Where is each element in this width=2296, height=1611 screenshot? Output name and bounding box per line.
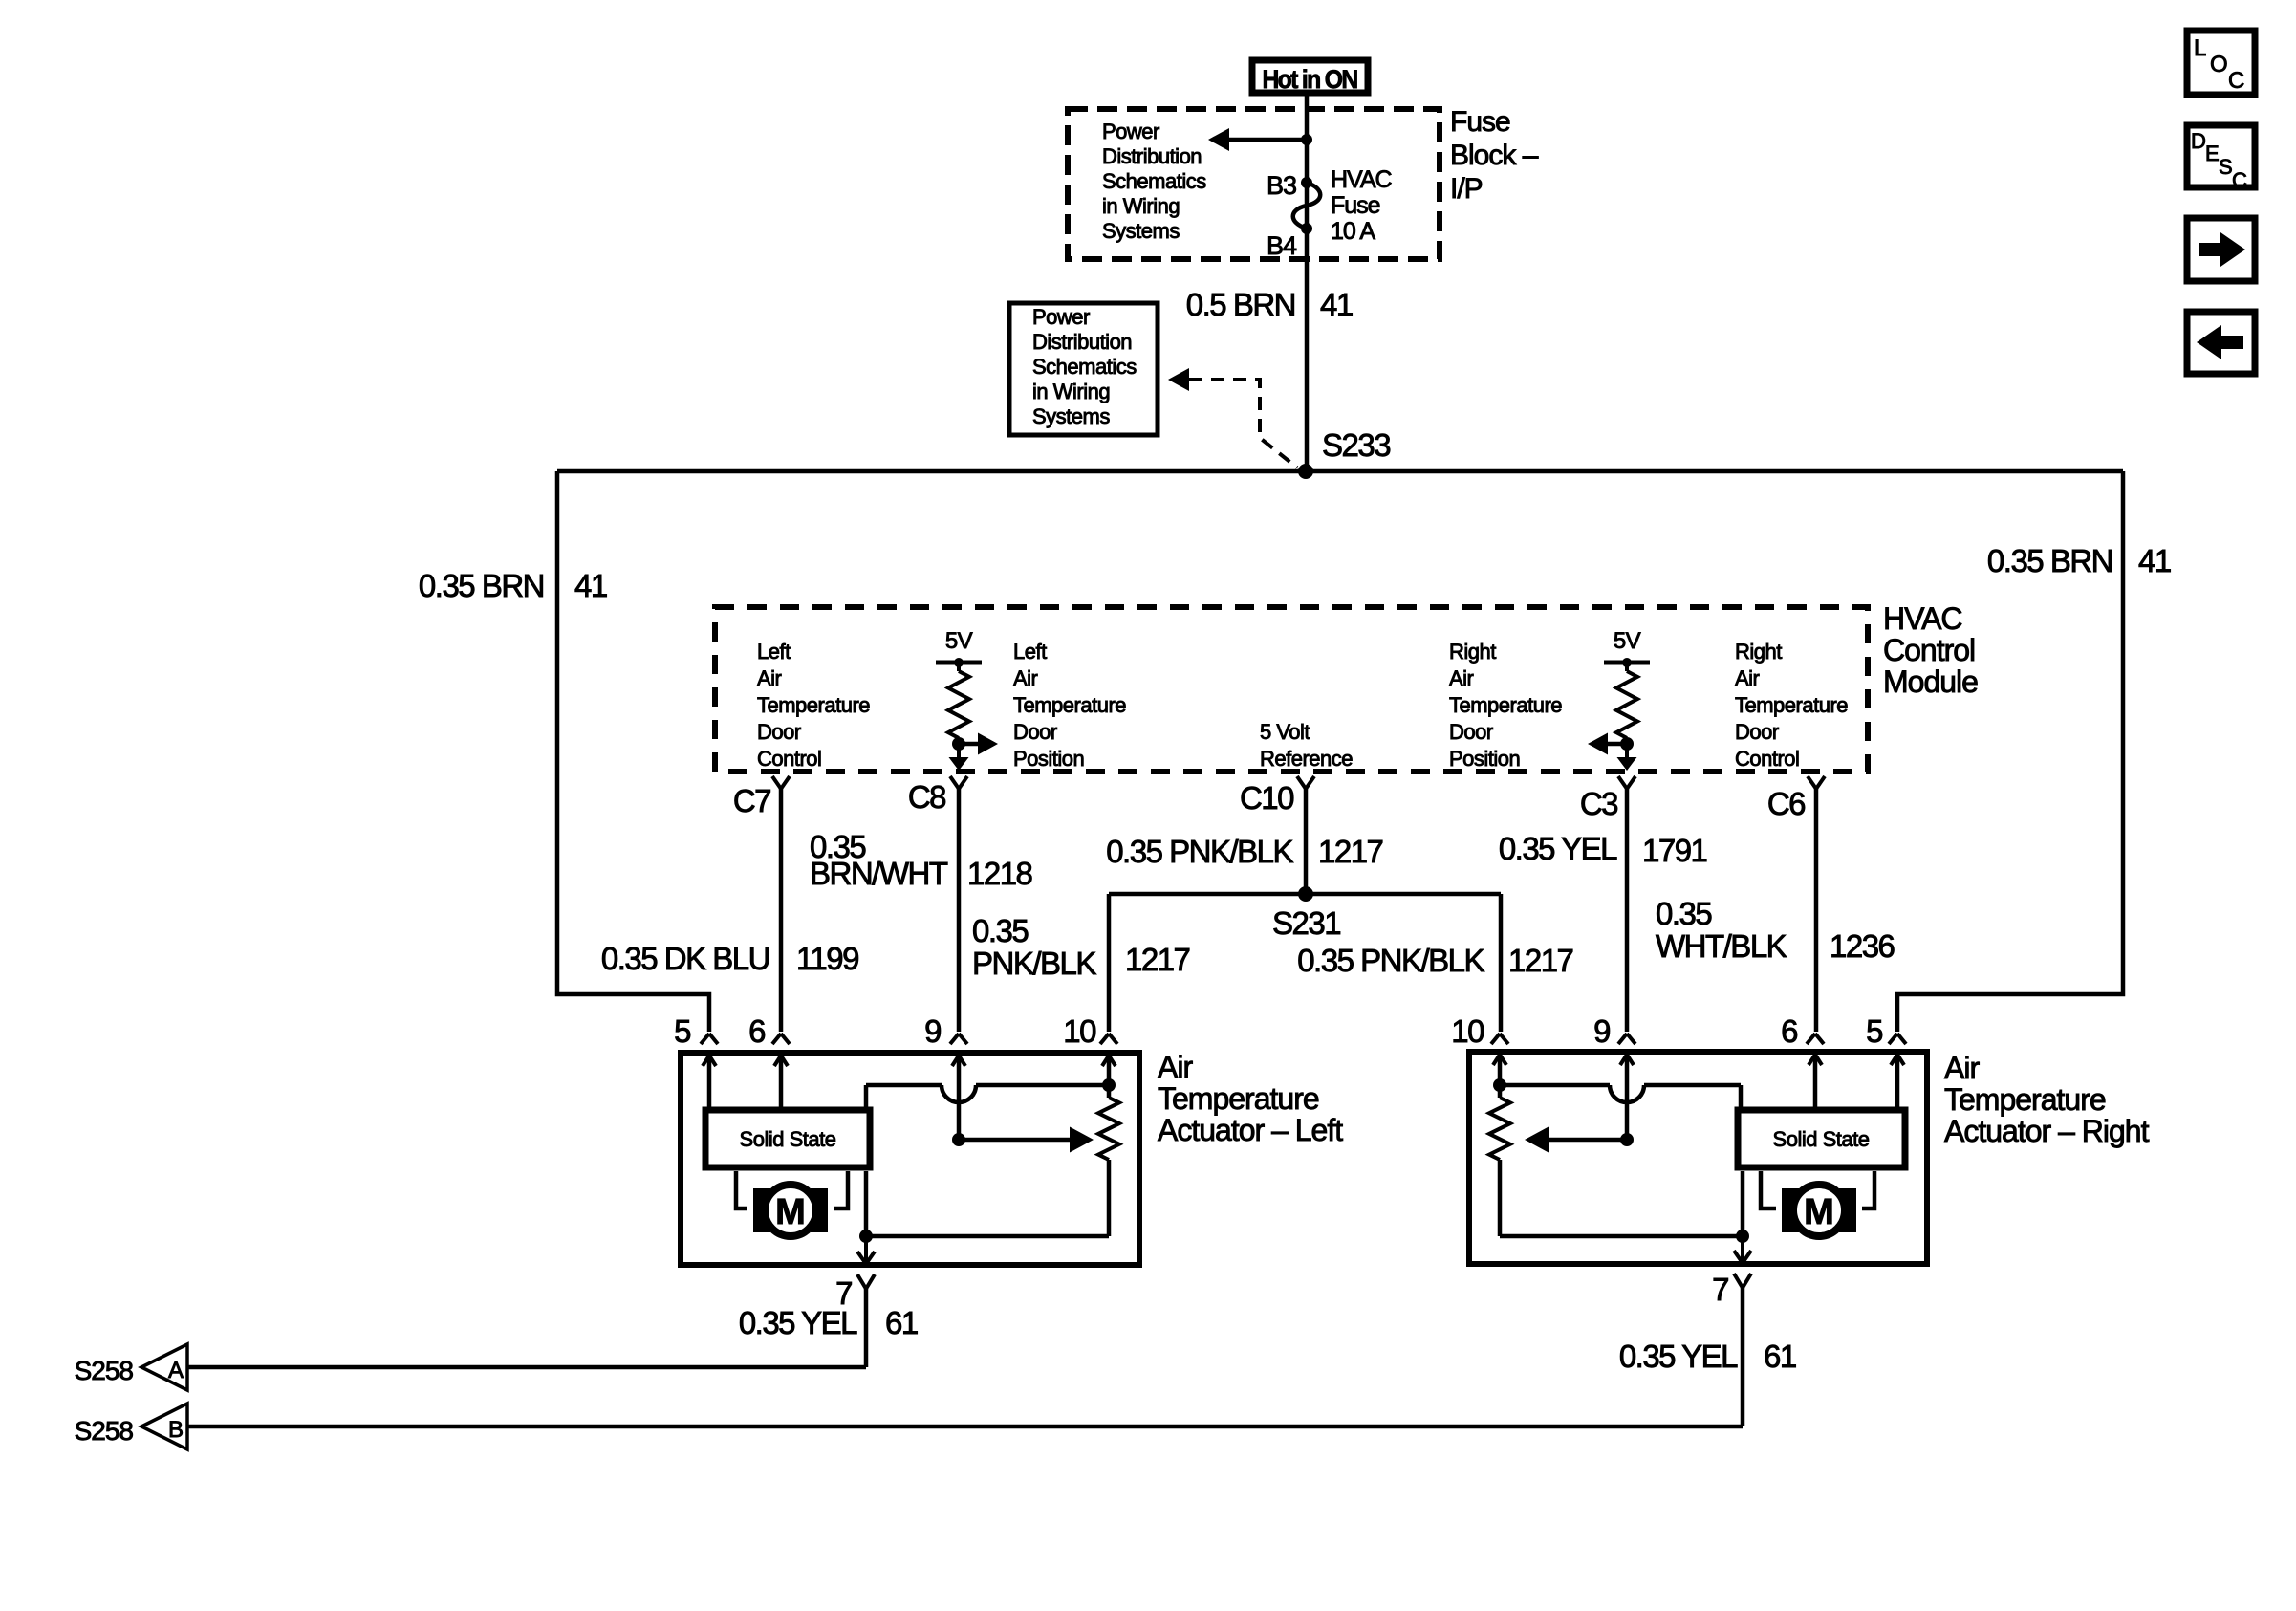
- svg-text:0.35 PNK/BLK: 0.35 PNK/BLK: [1297, 943, 1484, 978]
- wire: outer box top (S233 bus): [557, 469, 2123, 474]
- svg-text:Schematics: Schematics: [1032, 355, 1137, 379]
- svg-text:A: A: [168, 1358, 184, 1383]
- icon: DESC button: [2187, 125, 2255, 187]
- wire: pin 9 to wiper junction: [957, 1056, 962, 1140]
- arrow: left output down to C8: [957, 744, 961, 757]
- svg-text:L: L: [2194, 35, 2206, 61]
- wire: solid state to motor left brush: [736, 1171, 747, 1208]
- wire C3 to pin 9 right (0.35 YEL 1791): [1625, 788, 1630, 1032]
- node: junction at hot feed: [1301, 134, 1312, 145]
- svg-text:Hot in ON: Hot in ON: [1263, 65, 1357, 94]
- svg-text:PNK/BLK: PNK/BLK: [972, 946, 1096, 981]
- pin 10 (left actuator): [1100, 1034, 1109, 1044]
- motor M (left): [753, 1188, 770, 1232]
- svg-text:S258: S258: [75, 1416, 134, 1446]
- svg-text:I/P: I/P: [1450, 173, 1483, 205]
- svg-text:0.35 BRN: 0.35 BRN: [419, 568, 544, 603]
- svg-text:5: 5: [1866, 1013, 1882, 1049]
- svg-text:6: 6: [748, 1013, 765, 1049]
- svg-text:61: 61: [1764, 1339, 1796, 1374]
- connector C6: [1808, 776, 1816, 789]
- svg-text:Control: Control: [1735, 747, 1799, 771]
- svg-text:1236: 1236: [1830, 928, 1895, 964]
- svg-text:5: 5: [674, 1013, 690, 1049]
- svg-text:in Wiring: in Wiring: [1102, 194, 1180, 218]
- svg-text:0.35 DK BLU: 0.35 DK BLU: [601, 941, 769, 976]
- wire: S258 A to pin 7 left: [187, 1365, 866, 1370]
- wire: right 0.35 BRN 41 branch to pin 5 right: [1897, 471, 2123, 1032]
- svg-text:C7: C7: [733, 783, 770, 818]
- fuse: HVAC Fuse 10 A, terminals B3/B4: [1301, 177, 1312, 188]
- wire C10 to splice S231 (0.35 PNK/BLK 1217): [1304, 788, 1309, 889]
- icon: LOC button: [2187, 31, 2255, 95]
- svg-text:Right: Right: [1449, 640, 1496, 664]
- wire: S258 B to pin 7 right: [187, 1425, 1743, 1429]
- svg-text:1217: 1217: [1318, 834, 1383, 869]
- arrow: right wiper output left: [1607, 742, 1627, 747]
- resistor: left feedback potentiometer: [1098, 1098, 1119, 1160]
- wire: pin 10 to resistor top (right): [1498, 1055, 1503, 1098]
- power label "Hot in ON": [1252, 60, 1368, 93]
- svg-text:Door: Door: [757, 720, 801, 744]
- actuator box: Air Temperature Actuator - Right: [1469, 1052, 1927, 1264]
- pin 9 (left actuator): [950, 1034, 959, 1044]
- svg-text:61: 61: [885, 1305, 918, 1340]
- note box: Power Distribution Schematics in Wiring Systems: [1009, 303, 1158, 435]
- svg-text:5V: 5V: [945, 628, 973, 654]
- resistor: right position sense pull-up: [1625, 663, 1629, 671]
- svg-text:Air: Air: [1735, 666, 1760, 690]
- svg-text:Temperature: Temperature: [1158, 1081, 1319, 1116]
- svg-text:S258: S258: [75, 1356, 134, 1385]
- pin 9 (right actuator): [1618, 1034, 1627, 1044]
- svg-text:Temperature: Temperature: [1013, 693, 1126, 717]
- svg-text:Air: Air: [757, 666, 782, 690]
- svg-text:Control: Control: [757, 747, 821, 771]
- svg-text:Temperature: Temperature: [1735, 693, 1848, 717]
- svg-text:C: C: [2228, 68, 2244, 94]
- svg-text:1217: 1217: [1125, 942, 1190, 977]
- svg-text:10 A: 10 A: [1331, 218, 1375, 245]
- svg-text:in Wiring: in Wiring: [1032, 380, 1110, 403]
- svg-text:S231: S231: [1272, 905, 1340, 941]
- svg-text:9: 9: [924, 1013, 941, 1049]
- svg-text:41: 41: [1320, 287, 1353, 322]
- svg-text:Air: Air: [1449, 666, 1474, 690]
- svg-text:10: 10: [1451, 1013, 1484, 1049]
- connector C10: [1297, 776, 1306, 789]
- svg-text:B4: B4: [1267, 231, 1297, 260]
- svg-text:M: M: [775, 1192, 806, 1232]
- svg-text:41: 41: [574, 568, 607, 603]
- node: pin10/feedback junction: [1102, 1078, 1116, 1092]
- HVAC control module dashed box: [715, 607, 1868, 772]
- node: pin 7 junction (left): [859, 1230, 873, 1243]
- svg-text:S: S: [2219, 155, 2233, 179]
- connector C8: [950, 776, 959, 789]
- svg-text:Door: Door: [1735, 720, 1779, 744]
- svg-text:Left: Left: [757, 640, 791, 664]
- svg-text:Position: Position: [1449, 747, 1520, 771]
- wire: feedback line with hop over pin 9 wire (right): [1500, 1083, 1610, 1088]
- pin 5 (left actuator): [701, 1034, 709, 1044]
- svg-text:Distribution: Distribution: [1032, 330, 1132, 354]
- svg-text:41: 41: [2138, 543, 2171, 578]
- wire: solid state to motor right brush (right): [1862, 1171, 1874, 1208]
- wire C7 to pin 6 left (0.35 DK BLU 1199): [779, 788, 784, 1032]
- svg-text:Power: Power: [1102, 120, 1159, 143]
- wire: pin 5 into solid state (right): [1895, 1055, 1900, 1107]
- fuse block I/P dashed box: [1068, 109, 1440, 259]
- arrow: to pin 7 (right): [1741, 1236, 1744, 1263]
- motor M (right): [1782, 1188, 1799, 1232]
- svg-text:0.35 YEL: 0.35 YEL: [1499, 831, 1617, 866]
- wiper arrow (right potentiometer): [1620, 1133, 1634, 1146]
- svg-text:C10: C10: [1240, 780, 1294, 816]
- svg-text:1791: 1791: [1642, 833, 1707, 868]
- connector C7: [772, 776, 781, 789]
- svg-text:0.5 BRN: 0.5 BRN: [1186, 287, 1295, 322]
- splice S231: [1298, 886, 1313, 902]
- wire: solid state down to pin 7 junction: [864, 1171, 869, 1236]
- svg-text:Systems: Systems: [1032, 404, 1110, 428]
- wire C6 to pin 6 right (0.35 WHT/BLK 1236): [1814, 788, 1819, 1032]
- svg-text:WHT/BLK: WHT/BLK: [1656, 928, 1787, 964]
- splice S233: [1298, 464, 1313, 479]
- actuator box: Air Temperature Actuator - Left: [681, 1053, 1139, 1265]
- svg-text:Block –: Block –: [1450, 140, 1539, 171]
- pin 7 connector (right): [1734, 1274, 1743, 1288]
- wire: feedback line with hop over pin 9 wire: [866, 1083, 942, 1088]
- svg-text:C6: C6: [1767, 786, 1805, 821]
- splice S258 B: [141, 1404, 187, 1449]
- svg-text:Temperature: Temperature: [1944, 1082, 2106, 1117]
- wire: S231 right branch to pin 10 right: [1499, 894, 1504, 1032]
- svg-text:1199: 1199: [796, 941, 858, 976]
- svg-text:5 Volt: 5 Volt: [1260, 720, 1310, 744]
- resistor: left position sense pull-up: [957, 663, 961, 671]
- svg-text:10: 10: [1063, 1013, 1096, 1049]
- svg-text:Air: Air: [1944, 1051, 1980, 1085]
- svg-text:Temperature: Temperature: [1449, 693, 1562, 717]
- svg-text:HVAC: HVAC: [1331, 166, 1393, 193]
- svg-text:Right: Right: [1735, 640, 1782, 664]
- node: pin10/feedback junction (right): [1493, 1078, 1506, 1092]
- svg-text:1218: 1218: [967, 856, 1032, 891]
- arrow: to pin 7 (left): [864, 1236, 868, 1264]
- svg-text:Door: Door: [1013, 720, 1057, 744]
- svg-text:C: C: [2232, 168, 2247, 192]
- svg-text:Systems: Systems: [1102, 219, 1180, 243]
- svg-text:C8: C8: [908, 779, 945, 815]
- pin 5 (right actuator): [1889, 1034, 1897, 1044]
- resistor: right feedback potentiometer: [1489, 1098, 1510, 1160]
- svg-text:Left: Left: [1013, 640, 1047, 664]
- svg-text:6: 6: [1781, 1013, 1797, 1049]
- wire: pin 6 into solid state (right): [1813, 1055, 1818, 1107]
- wire: Hot in ON down to S233: [1305, 96, 1310, 471]
- pin 7 connector (left): [857, 1274, 866, 1289]
- dashed reference arrow to note box: [1168, 368, 1189, 391]
- svg-text:E: E: [2205, 142, 2220, 165]
- svg-text:Distribution: Distribution: [1102, 144, 1202, 168]
- svg-text:Schematics: Schematics: [1102, 169, 1206, 193]
- svg-text:B: B: [168, 1417, 184, 1443]
- icon: next arrow button: [2187, 218, 2255, 281]
- wire: S231 left branch to pin 10 left: [1107, 894, 1112, 1032]
- svg-text:Door: Door: [1449, 720, 1493, 744]
- solid state module (right): [1738, 1110, 1905, 1167]
- icon: back arrow button: [2187, 312, 2255, 374]
- wire: solid state down to pin 7 junction (right): [1741, 1171, 1745, 1236]
- node: pin 7 junction (right): [1736, 1230, 1749, 1243]
- svg-text:Power: Power: [1032, 305, 1090, 329]
- svg-text:C3: C3: [1580, 786, 1617, 821]
- svg-text:0.35 YEL: 0.35 YEL: [1619, 1339, 1738, 1374]
- svg-text:B3: B3: [1267, 171, 1296, 200]
- svg-text:Module: Module: [1883, 664, 1978, 699]
- svg-text:Fuse: Fuse: [1450, 106, 1510, 138]
- wire: pin 6 into solid state: [779, 1056, 784, 1107]
- svg-text:9: 9: [1593, 1013, 1610, 1049]
- svg-text:D: D: [2191, 129, 2206, 153]
- arrow: right output down to C3: [1625, 744, 1629, 757]
- svg-text:Actuator – Left: Actuator – Left: [1158, 1113, 1343, 1147]
- pin 10 (right actuator): [1491, 1034, 1500, 1044]
- splice S258 A: [141, 1344, 187, 1390]
- svg-text:HVAC: HVAC: [1883, 601, 1962, 636]
- arrow: left wiper output right: [959, 742, 979, 747]
- svg-text:Temperature: Temperature: [757, 693, 870, 717]
- wire: pin 10 to resistor top: [1107, 1056, 1112, 1098]
- connector C3: [1618, 776, 1627, 789]
- svg-text:Solid State: Solid State: [740, 1127, 836, 1151]
- svg-text:O: O: [2210, 52, 2228, 77]
- wire: left 0.35 BRN 41 branch to pin 5 left: [557, 471, 709, 1032]
- wire: pin 9 to wiper junction (right): [1625, 1055, 1630, 1140]
- svg-text:0.35 BRN: 0.35 BRN: [1987, 543, 2112, 578]
- svg-text:S233: S233: [1322, 427, 1390, 463]
- pin 6 (right actuator): [1807, 1034, 1815, 1044]
- svg-text:Actuator – Right: Actuator – Right: [1944, 1114, 2150, 1148]
- svg-text:0.35: 0.35: [972, 913, 1028, 948]
- svg-text:Fuse: Fuse: [1331, 192, 1380, 219]
- wire: pin 5 into solid state: [707, 1056, 712, 1107]
- svg-text:0.35 PNK/BLK: 0.35 PNK/BLK: [1106, 834, 1293, 869]
- wire C8 to pin 9 left (0.35 BRN/WHT 1218): [957, 788, 962, 1032]
- svg-text:Reference: Reference: [1260, 747, 1353, 771]
- svg-text:5V: 5V: [1614, 628, 1641, 654]
- svg-text:Solid State: Solid State: [1773, 1127, 1870, 1151]
- wiper arrow (left potentiometer): [952, 1133, 965, 1146]
- svg-text:Air: Air: [1158, 1050, 1193, 1084]
- wire: solid state to motor left brush (right): [1761, 1171, 1776, 1208]
- pin 6 (left actuator): [772, 1034, 781, 1044]
- svg-text:0.35 YEL: 0.35 YEL: [739, 1305, 857, 1340]
- arrow: to power distribution schematics: [1226, 138, 1307, 142]
- svg-text:0.35: 0.35: [1656, 896, 1711, 931]
- wire: solid state to motor right brush: [834, 1171, 848, 1208]
- svg-text:BRN/WHT: BRN/WHT: [810, 856, 948, 891]
- svg-text:Position: Position: [1013, 747, 1084, 771]
- svg-text:Control: Control: [1883, 633, 1975, 667]
- svg-text:1217: 1217: [1508, 943, 1573, 978]
- svg-text:Air: Air: [1013, 666, 1038, 690]
- svg-text:7: 7: [1712, 1272, 1728, 1307]
- svg-text:M: M: [1804, 1192, 1834, 1232]
- solid state module (left): [705, 1110, 870, 1167]
